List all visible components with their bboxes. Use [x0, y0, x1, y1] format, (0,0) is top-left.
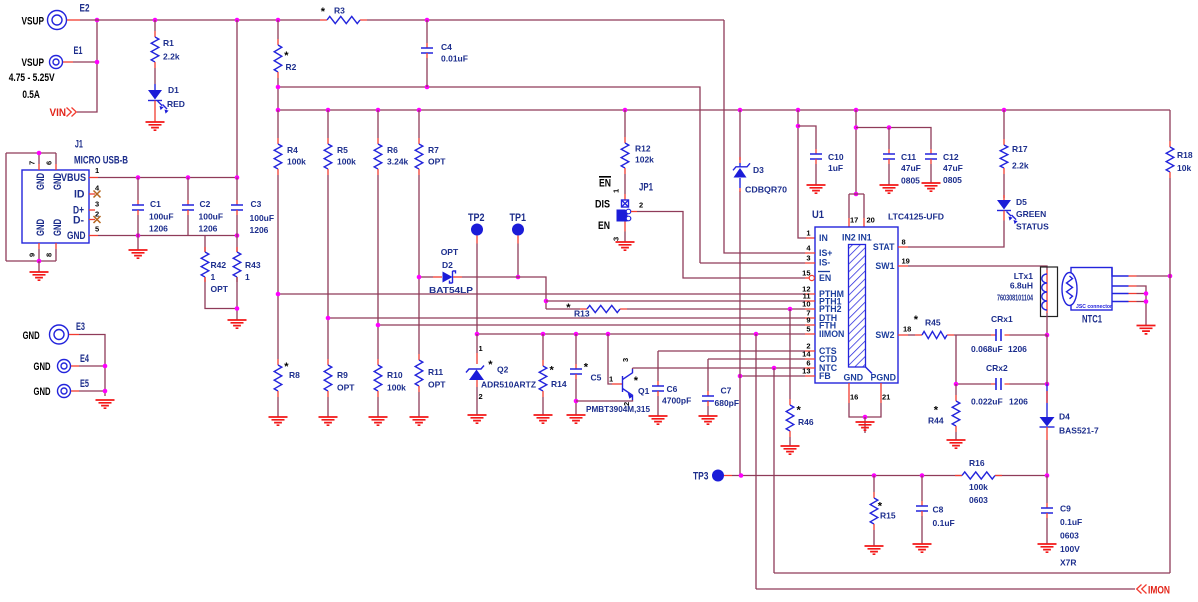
label EN-bar (JP1 pin1): [599, 176, 611, 178]
svg-text:OPT: OPT: [428, 380, 446, 390]
wire FTH (pin9) y=325: [378, 324, 805, 326]
svg-text:ADR510ARTZ: ADR510ARTZ: [481, 380, 536, 390]
jumper JP1 shunt (pins 2-3): [617, 210, 628, 222]
svg-text:E3: E3: [76, 321, 85, 333]
svg-text:6.8uH: 6.8uH: [1010, 281, 1033, 291]
NTC1 pin 4: [1112, 301, 1129, 303]
svg-text:C2: C2: [200, 199, 211, 209]
svg-text:LTx1: LTx1: [1014, 271, 1033, 281]
terminal E2 (VSUP banana jack): [48, 11, 67, 30]
svg-text:R1: R1: [163, 38, 174, 48]
svg-text:9: 9: [806, 316, 810, 325]
wire PTH2 (pin10) via R13 y=309: [546, 308, 805, 310]
wire E5: [71, 390, 79, 392]
svg-text:6: 6: [45, 161, 54, 165]
LED D1 RED: [148, 90, 162, 100]
svg-text:4700pF: 4700pF: [662, 396, 691, 406]
resistor R3 (in rail): [320, 19, 367, 21]
capacitor CRx2 0.022uF: [991, 383, 1010, 385]
wire NTC net bottom y=573: [774, 572, 1170, 574]
svg-text:1206: 1206: [250, 225, 269, 235]
transistor Q1 PMBT3904M,315: [622, 376, 624, 392]
wire coil node to D4: [1046, 335, 1048, 384]
no-connect X (D-): [94, 216, 101, 223]
svg-text:*: *: [284, 50, 289, 62]
wire CTD (pin14) y=359: [708, 358, 805, 360]
svg-text:102k: 102k: [635, 155, 654, 165]
svg-text:8: 8: [45, 253, 54, 257]
resistor R8: [277, 294, 279, 359]
no-connect X (ID): [94, 191, 101, 198]
svg-text:100uF: 100uF: [199, 212, 224, 222]
svg-text:E5: E5: [80, 378, 89, 390]
ground (R10): [369, 417, 388, 425]
capacitor C9 0.1uF 100V X7R: [1046, 476, 1048, 504]
svg-text:C11: C11: [901, 152, 916, 162]
svg-text:0603: 0603: [969, 495, 988, 505]
wire IS- (pin3) from rail2: [700, 262, 805, 264]
inductor LTx1 6.8uH 760308101104: [1041, 267, 1058, 317]
U1 bottom pin stubs: [849, 383, 881, 403]
svg-text:STAT: STAT: [873, 242, 895, 252]
U1 internal hatched block: [849, 245, 866, 368]
svg-text:GREEN: GREEN: [1016, 209, 1046, 219]
svg-text:VBUS: VBUS: [61, 172, 86, 184]
wire E3: [69, 334, 79, 336]
wire E1 stub: [63, 61, 73, 63]
svg-text:R5: R5: [337, 145, 348, 155]
svg-text:D1: D1: [168, 85, 179, 95]
resistor R4: [277, 110, 279, 138]
port IMON (output arrow): [1137, 585, 1147, 594]
svg-text:R44: R44: [928, 416, 944, 426]
resistor R9: [327, 318, 329, 359]
svg-text:ID: ID: [74, 189, 85, 201]
wire PTHM (pin12) y=294: [278, 293, 805, 295]
svg-text:0.022uF: 0.022uF: [971, 397, 1003, 407]
capacitor C11 47uF: [888, 128, 890, 150]
svg-text:E1: E1: [74, 45, 83, 57]
svg-text:9: 9: [28, 253, 37, 257]
node rail1 junctions: [153, 18, 158, 23]
svg-text:1: 1: [612, 189, 621, 193]
svg-text:19: 19: [902, 257, 910, 266]
svg-text:100k: 100k: [337, 157, 356, 167]
ground (R14): [534, 415, 553, 423]
svg-text:*: *: [934, 404, 939, 416]
J1 bottom pins 9,8: [6, 249, 56, 261]
wire R1 to D1: [154, 68, 156, 84]
svg-text:C5: C5: [591, 373, 602, 383]
wire rail3 y=110: [278, 109, 1170, 111]
connector NTC1 body: [1071, 268, 1112, 311]
svg-text:OPT: OPT: [211, 284, 229, 294]
U1 right pin stubs: [898, 247, 908, 335]
svg-text:PMBT3904M,315: PMBT3904M,315: [586, 404, 650, 414]
terminal E3 (GND): [50, 325, 69, 344]
svg-text:C7: C7: [721, 386, 732, 396]
svg-text:R9: R9: [337, 370, 348, 380]
svg-text:IS-: IS-: [819, 258, 830, 268]
svg-text:2: 2: [479, 392, 483, 401]
svg-text:R14: R14: [551, 379, 567, 389]
svg-text:47uF: 47uF: [943, 163, 963, 173]
svg-text:CRx1: CRx1: [991, 314, 1013, 324]
wire coil to CRx1 node: [1046, 313, 1048, 335]
ground (C10): [807, 185, 826, 193]
resistor R13: [580, 308, 627, 310]
ground (R9): [319, 417, 338, 425]
svg-text:C8: C8: [933, 505, 944, 515]
resistor R10: [377, 325, 379, 359]
svg-text:100k: 100k: [287, 157, 306, 167]
svg-text:5: 5: [806, 325, 810, 334]
svg-text:PGND: PGND: [871, 373, 896, 383]
IC U1 LTC4125-UFD body: [815, 227, 898, 383]
svg-text:IN2: IN2: [842, 233, 856, 243]
ground (J1): [30, 272, 49, 280]
wire D1 to ground: [154, 101, 156, 123]
resistor R18 10k: [1169, 110, 1171, 141]
svg-text:1: 1: [95, 166, 99, 175]
U1 left pin stubs (red): [805, 253, 815, 376]
svg-text:C6: C6: [667, 384, 678, 394]
wire C11/C12 branch: [856, 128, 931, 150]
wire C10 branch: [798, 126, 816, 149]
wire GND net y=235.5: [98, 235, 237, 237]
capacitor C7 680pF: [707, 359, 709, 391]
svg-text:R4: R4: [287, 145, 298, 155]
svg-text:IN: IN: [819, 233, 828, 243]
svg-text:NTC1: NTC1: [1082, 314, 1102, 326]
ground (U1): [856, 422, 875, 430]
svg-text:1206: 1206: [1009, 397, 1028, 407]
ground (R8): [269, 417, 288, 425]
wire J1 shield to ground: [38, 261, 40, 272]
svg-text:100k: 100k: [387, 383, 406, 393]
svg-text:3: 3: [806, 254, 810, 263]
svg-text:SW2: SW2: [875, 330, 894, 340]
wire VBUS net y=177.5: [98, 177, 237, 179]
svg-text:VIN: VIN: [50, 107, 67, 119]
svg-text:BAS521-7: BAS521-7: [1059, 426, 1099, 436]
capacitor C3 100uF: [236, 178, 238, 201]
svg-text:LTC4125-UFD: LTC4125-UFD: [888, 212, 944, 222]
wire Q1 base from IIMON: [608, 334, 612, 384]
svg-text:R7: R7: [428, 145, 439, 155]
terminal E4 (GND): [58, 360, 71, 373]
wire IIMON (pin5) y=334: [477, 333, 805, 335]
ground (R42/R43): [228, 320, 247, 328]
wire TP3 stub: [724, 475, 732, 477]
wire CRx1 to coil node: [1010, 334, 1048, 336]
thermistor symbol (NTC1): [1062, 273, 1077, 306]
svg-text:5: 5: [95, 225, 99, 234]
wire R42 branch: [205, 236, 237, 309]
svg-text:100uF: 100uF: [149, 212, 174, 222]
jumper JP1 header pin: [622, 200, 629, 207]
svg-text:0.1uF: 0.1uF: [1060, 517, 1082, 527]
svg-text:680pF: 680pF: [715, 398, 740, 408]
svg-text:D4: D4: [1059, 412, 1070, 422]
svg-text:GND: GND: [67, 230, 86, 242]
svg-text:3.24k: 3.24k: [387, 157, 409, 167]
wire Q2 bottom to ground: [476, 380, 478, 387]
svg-text:Q1: Q1: [638, 386, 650, 396]
svg-text:U1: U1: [812, 209, 824, 221]
svg-text:VSUP: VSUP: [22, 15, 45, 27]
wire IS+ (pin4) from rail1: [724, 20, 805, 253]
svg-text:R13: R13: [574, 309, 590, 319]
svg-text:0.068uF: 0.068uF: [971, 344, 1003, 354]
svg-text:EN: EN: [819, 273, 831, 283]
wire NTC net down x=774: [773, 368, 775, 573]
LED D5 GREEN STATUS: [997, 200, 1011, 210]
svg-text:MICRO USB-B: MICRO USB-B: [74, 154, 128, 166]
svg-text:R6: R6: [387, 145, 398, 155]
svg-text:*: *: [797, 405, 802, 417]
svg-text:17: 17: [850, 216, 858, 225]
svg-text:OPT: OPT: [428, 157, 446, 167]
resistor R42: [204, 247, 206, 252]
wire R5 to DTH node: [327, 175, 329, 318]
svg-text:GND: GND: [34, 361, 51, 373]
svg-text:C3: C3: [251, 199, 262, 209]
svg-text:RED: RED: [167, 99, 185, 109]
svg-text:E4: E4: [80, 353, 90, 365]
svg-text:R46: R46: [798, 417, 814, 427]
svg-text:C9: C9: [1060, 504, 1071, 514]
wire NTC (pin6) y=368: [633, 367, 806, 369]
wire Q2 top: [476, 334, 478, 353]
svg-text:*: *: [321, 6, 326, 18]
svg-text:C12: C12: [943, 152, 959, 162]
svg-text:8: 8: [902, 238, 906, 247]
resistor R12 102k: [624, 110, 626, 137]
wire SW2 (pin18): [908, 334, 915, 336]
wire pins 17/20 bracket: [849, 194, 864, 218]
wire E1 to node: [73, 61, 97, 63]
wire SW2 node down to CRx2: [956, 335, 991, 384]
NTC1 pin 2: [1112, 285, 1129, 287]
wire SW1 (pin19) to coil: [908, 266, 1047, 270]
wire EN net JP1 pin2 to U1 EN: [631, 211, 637, 213]
svg-text:0805: 0805: [943, 175, 962, 185]
wire TP1 down: [517, 236, 519, 244]
svg-text:1: 1: [806, 229, 810, 238]
svg-text:OPT: OPT: [441, 247, 459, 257]
resistor R44: [955, 384, 957, 395]
wire rail2 y=87: [278, 87, 700, 263]
svg-text:21: 21: [882, 393, 890, 402]
wire E4: [71, 365, 79, 367]
capacitor C1 100uF: [137, 178, 139, 201]
wire E2 stub: [67, 19, 80, 21]
svg-text:C4: C4: [441, 42, 452, 52]
ground (C12): [922, 183, 941, 191]
svg-text:STATUS: STATUS: [1016, 222, 1049, 232]
svg-text:0.1uF: 0.1uF: [933, 518, 955, 528]
svg-text:E2: E2: [80, 3, 90, 15]
ground (R46): [781, 446, 800, 454]
svg-text:VSUP: VSUP: [22, 57, 45, 69]
J1 top pins 7,6: [6, 153, 56, 261]
svg-text:*: *: [634, 375, 639, 387]
capacitor C6 4700pF: [657, 351, 659, 381]
capacitor C10 1uF: [815, 149, 817, 154]
svg-text:TP3: TP3: [693, 471, 709, 483]
svg-text:2.2k: 2.2k: [163, 52, 180, 62]
ground (JP1): [616, 242, 635, 250]
svg-text:IS+: IS+: [819, 248, 832, 258]
svg-text:*: *: [550, 365, 555, 377]
svg-text:CDBQR70: CDBQR70: [745, 185, 787, 195]
svg-text:1: 1: [211, 272, 216, 282]
terminal E5 (GND): [58, 385, 71, 398]
svg-text:16: 16: [850, 393, 858, 402]
svg-text:3: 3: [621, 358, 630, 362]
svg-text:*: *: [566, 302, 571, 314]
wire C1 ground stub: [137, 236, 139, 251]
shunt reference Q2 ADR510ARTZ (zener): [466, 366, 484, 373]
svg-text:D5: D5: [1016, 197, 1027, 207]
svg-text:2.2k: 2.2k: [1012, 161, 1029, 171]
wire VBUS to VSUP rail: [236, 20, 238, 178]
svg-text:47uF: 47uF: [901, 163, 921, 173]
svg-text:R15: R15: [880, 511, 896, 521]
svg-text:EN: EN: [599, 178, 611, 190]
resistor R16 100k 0603: [955, 475, 1002, 477]
ground (C8): [913, 544, 932, 552]
wire FB (pin13) y=376: [740, 375, 805, 377]
wire R6 to FTH node: [377, 175, 379, 325]
svg-text:0805: 0805: [901, 176, 920, 186]
svg-text:IMON: IMON: [1148, 585, 1170, 597]
svg-text:1206: 1206: [149, 224, 168, 234]
svg-text:GND: GND: [52, 219, 64, 236]
diode D4 BAS521-7: [1046, 384, 1048, 417]
svg-text:1206: 1206: [199, 224, 218, 234]
resistor R7: [418, 110, 420, 138]
svg-text:15: 15: [802, 269, 810, 278]
diode D3 CDBQR70 (zener): [733, 163, 750, 170]
ground (C1): [129, 250, 148, 258]
ground (Q2): [468, 415, 487, 423]
svg-text:DIS: DIS: [595, 199, 610, 211]
wire PTH1 (pin11) y=301: [546, 300, 805, 302]
svg-text:D2: D2: [442, 260, 453, 270]
resistor R17 2.2k: [1003, 110, 1005, 139]
svg-text:1: 1: [245, 272, 250, 282]
svg-text:IN1: IN1: [858, 233, 872, 243]
svg-text:D-: D-: [73, 215, 84, 227]
diode D2 BAT54LP (schottky): [443, 272, 453, 283]
svg-text:*: *: [584, 361, 589, 373]
svg-text:GND: GND: [35, 173, 47, 190]
wire R7 to D2 node: [418, 175, 420, 277]
resistor R45: [915, 334, 954, 336]
wire R45 to CRx1: [954, 334, 991, 336]
svg-text:0.5A: 0.5A: [22, 89, 40, 101]
resistor R1 2.2k: [154, 20, 156, 31]
svg-text:100k: 100k: [969, 482, 988, 492]
NTC1 pin 3: [1112, 293, 1129, 295]
wire IIMON net down x=756: [755, 334, 757, 589]
ground (C9): [1038, 544, 1057, 552]
svg-text:TP2: TP2: [468, 212, 485, 224]
resistor R43: [236, 236, 238, 253]
wire R46 from PTH2 line: [788, 307, 793, 312]
wire TP2 down: [476, 236, 478, 244]
wire D2 cathode to TP1/corner: [453, 276, 462, 278]
node E2/E1/VIN junction: [95, 18, 100, 23]
svg-text:GND: GND: [23, 330, 40, 342]
svg-text:100uF: 100uF: [250, 213, 275, 223]
ground (C7): [699, 416, 718, 424]
wire JP1 pin3 to ground: [624, 222, 626, 232]
svg-text:Q2: Q2: [497, 365, 509, 375]
svg-text:R18: R18: [1177, 150, 1193, 160]
capacitor C4 0.01uF: [426, 20, 428, 43]
svg-text:4.75 - 5.25V: 4.75 - 5.25V: [9, 72, 56, 84]
capacitor C12 47uF: [930, 149, 932, 154]
capacitor C5: [575, 334, 577, 364]
svg-text:R8: R8: [289, 370, 300, 380]
wire VSUP rail y=20: [80, 19, 724, 21]
svg-text:OPT: OPT: [337, 383, 355, 393]
svg-text:3: 3: [612, 237, 621, 241]
svg-text:18: 18: [903, 325, 911, 334]
svg-text:760308101104: 760308101104: [997, 293, 1033, 303]
svg-text:R12: R12: [635, 144, 651, 154]
svg-text:*: *: [914, 314, 919, 326]
svg-text:R11: R11: [428, 367, 443, 377]
ground (C6): [649, 416, 668, 424]
wire R4 to PTHM node: [277, 175, 279, 294]
svg-text:C10: C10: [828, 152, 844, 162]
svg-text:1206: 1206: [1008, 344, 1027, 354]
svg-text:JSC connector: JSC connector: [1076, 304, 1112, 310]
wire D2 anode: [419, 276, 433, 278]
terminal E1 (VSUP): [50, 56, 63, 69]
svg-text:14: 14: [802, 350, 811, 359]
svg-text:R10: R10: [387, 370, 403, 380]
svg-text:CRx2: CRx2: [986, 363, 1008, 373]
svg-text:10k: 10k: [1177, 163, 1191, 173]
ground (C5/Q1 emitter): [567, 415, 586, 423]
resistor R46: [786, 405, 794, 431]
svg-text:R16: R16: [969, 458, 985, 468]
wire CRx2 to D4 node: [1010, 383, 1048, 385]
svg-text:GND: GND: [34, 386, 51, 398]
wire U1 IN supply x=798: [798, 110, 806, 238]
resistor R15: [873, 476, 875, 493]
svg-text:IIMON: IIMON: [819, 329, 844, 339]
wire D3 vertical x=740: [739, 110, 741, 376]
svg-text:*: *: [488, 359, 493, 371]
wire Q1 collector to NTC line: [632, 368, 634, 369]
capacitor C2 100uF: [187, 178, 189, 201]
wire VIN to node: [77, 20, 97, 112]
connector J1 MICRO USB-B body: [22, 170, 89, 243]
svg-text:SW1: SW1: [875, 261, 894, 271]
svg-text:3: 3: [95, 200, 99, 209]
svg-text:R42: R42: [211, 260, 227, 270]
ground (D1): [146, 122, 165, 130]
svg-text:GND: GND: [844, 373, 864, 383]
capacitor C8 0.1uF: [921, 476, 923, 502]
svg-text:20: 20: [867, 216, 875, 225]
